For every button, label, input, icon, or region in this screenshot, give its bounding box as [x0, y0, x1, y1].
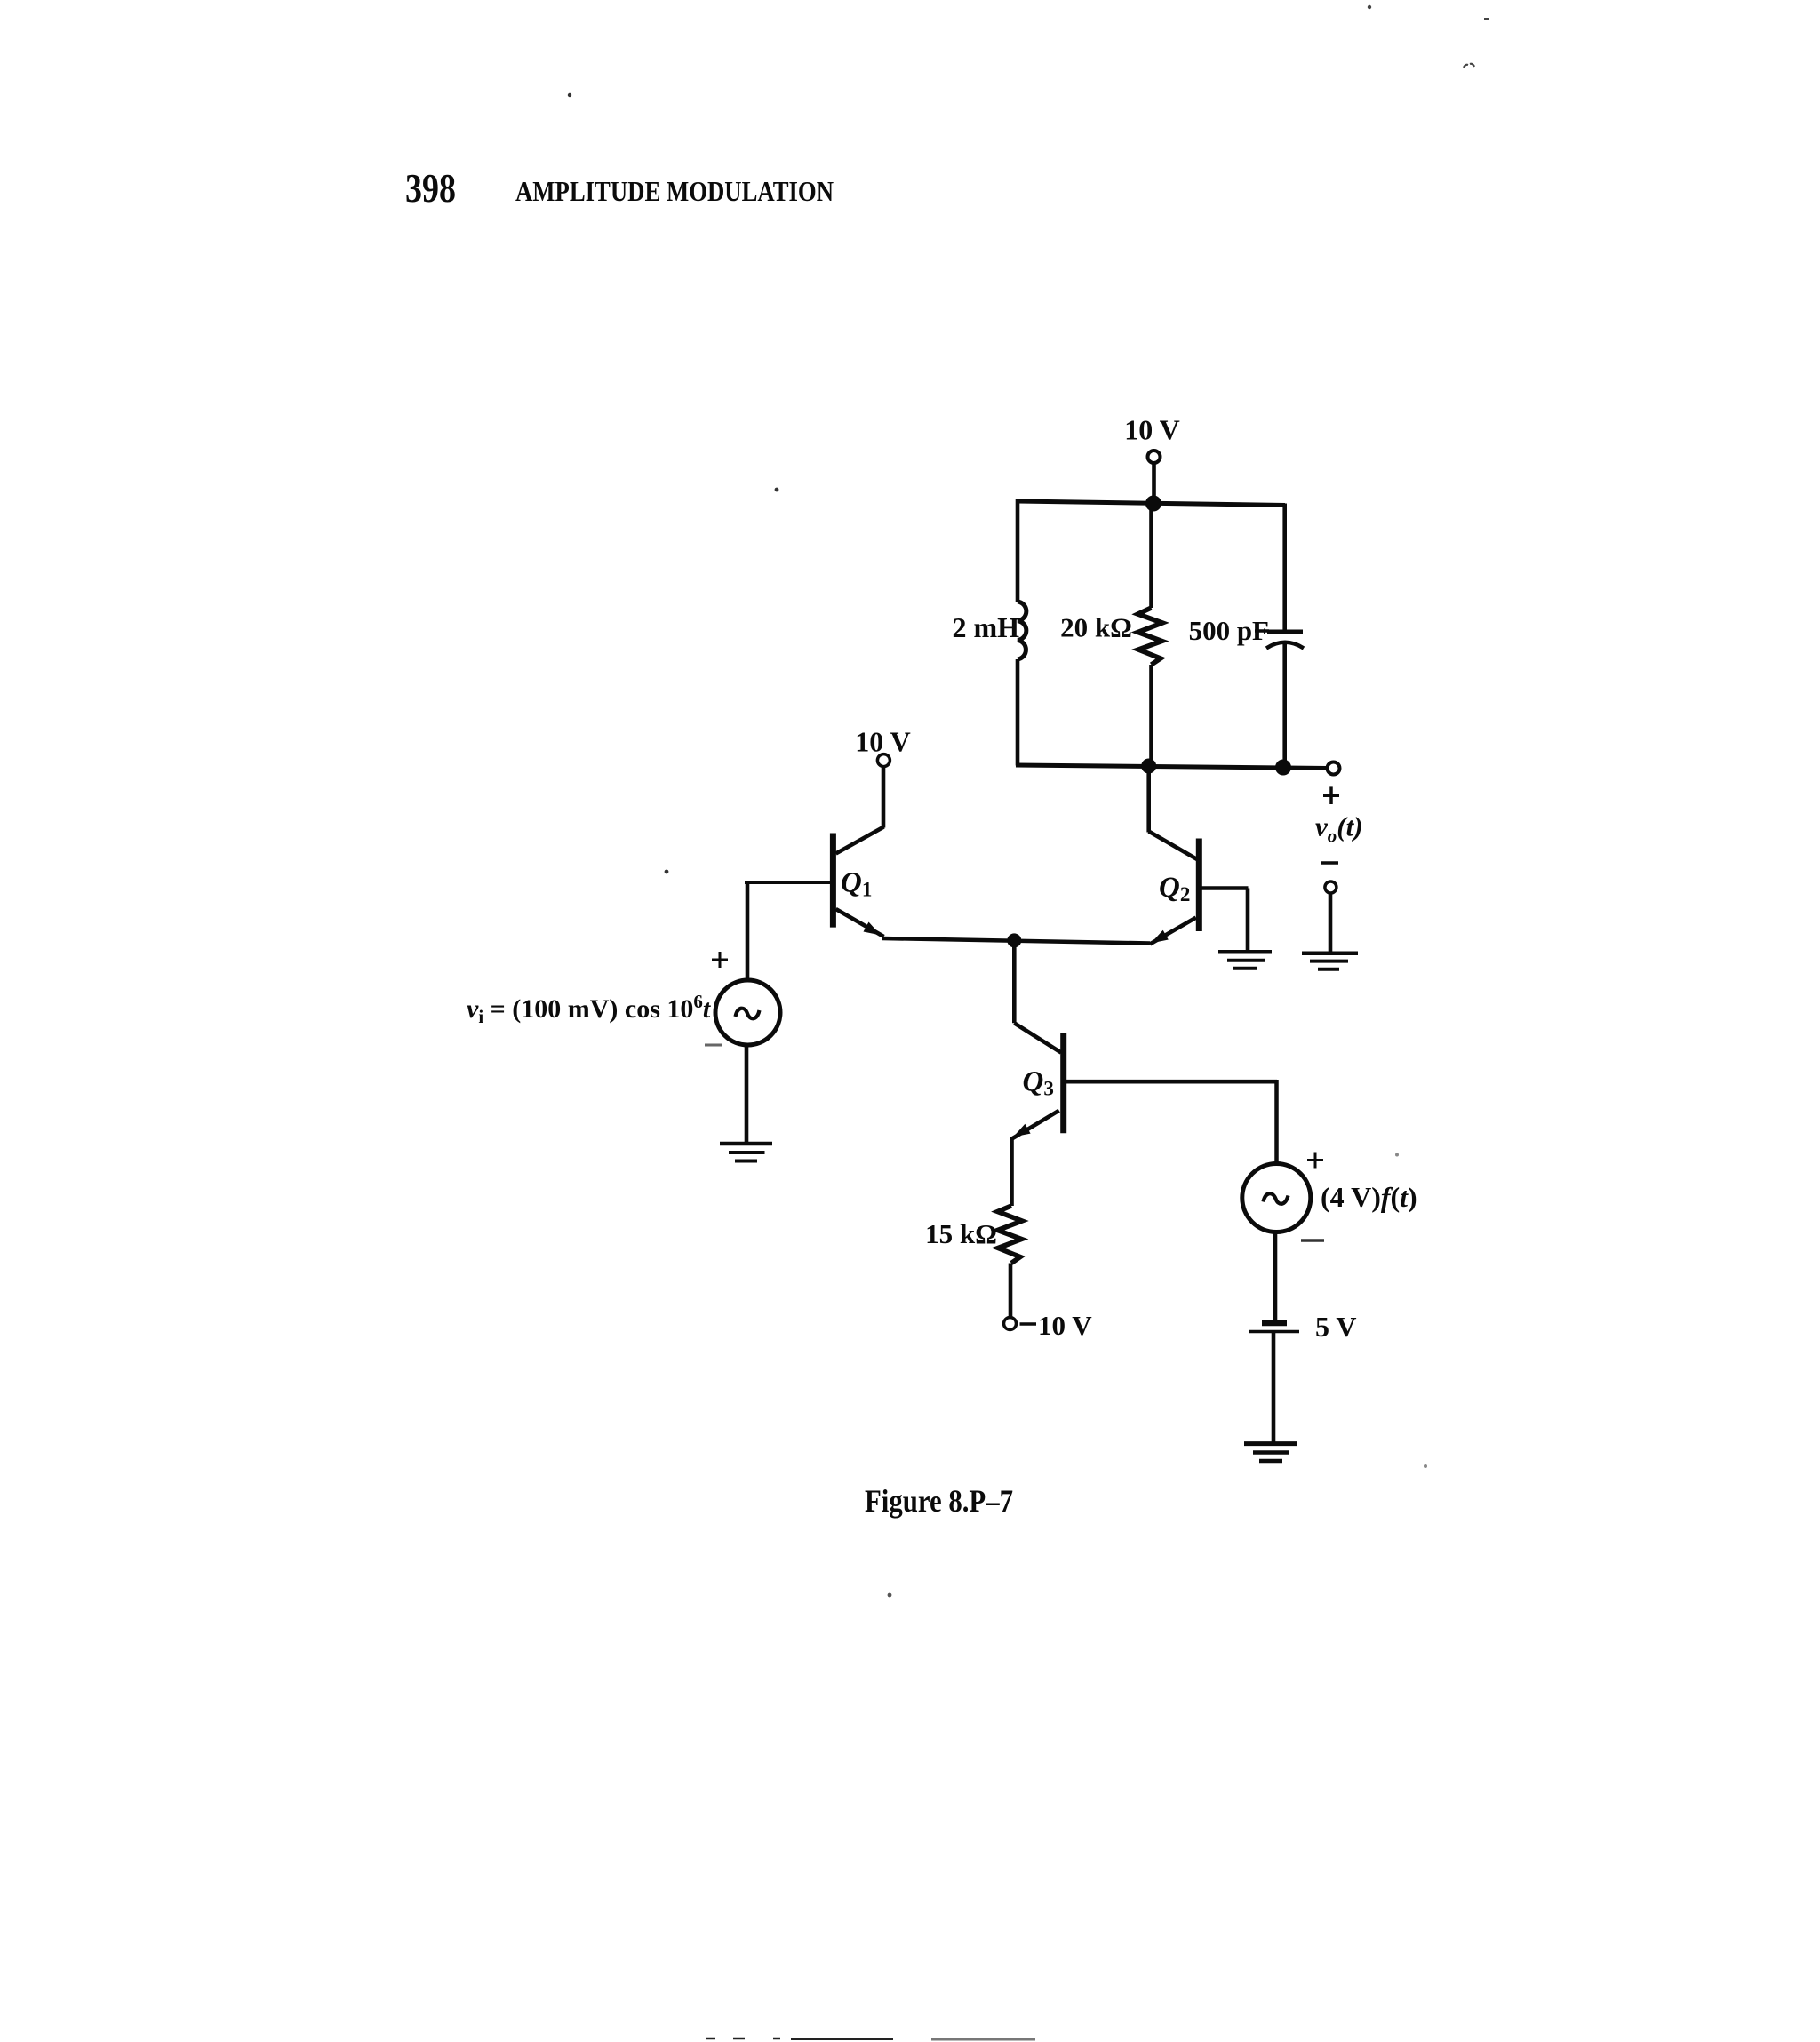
- svg-text:AMPLITUDE MODULATION: AMPLITUDE MODULATION: [515, 175, 834, 207]
- svg-text:vo(t): vo(t): [1315, 811, 1363, 847]
- svg-text:Q3: Q3: [1023, 1066, 1054, 1100]
- svg-text:398: 398: [405, 166, 456, 211]
- svg-text:2 mH: 2 mH: [952, 611, 1019, 643]
- svg-text:10 V: 10 V: [1124, 414, 1180, 446]
- svg-text:vi = (100 mV) cos 106t: vi = (100 mV) cos 106t: [467, 991, 712, 1027]
- svg-text:Figure 8.P–7: Figure 8.P–7: [865, 1483, 1013, 1519]
- svg-text:Q1: Q1: [841, 867, 872, 901]
- svg-text:20 kΩ: 20 kΩ: [1060, 612, 1132, 643]
- svg-text:15 kΩ: 15 kΩ: [925, 1218, 997, 1249]
- svg-text:5 V: 5 V: [1315, 1311, 1357, 1343]
- svg-text:(4 V)f(t): (4 V)f(t): [1321, 1181, 1417, 1213]
- svg-text:500 pF: 500 pF: [1189, 615, 1269, 646]
- svg-text:Q2: Q2: [1159, 872, 1190, 905]
- svg-text:10 V: 10 V: [1038, 1310, 1092, 1341]
- svg-text:10 V: 10 V: [855, 726, 911, 758]
